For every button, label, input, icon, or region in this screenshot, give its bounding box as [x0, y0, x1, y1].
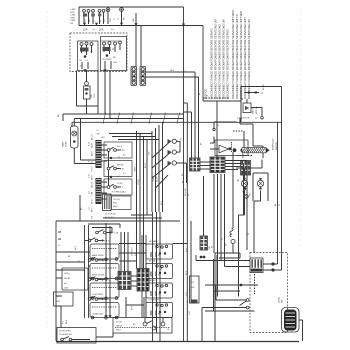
- svg-text:W-8: W-8: [148, 152, 150, 155]
- svg-text:W: W: [122, 169, 124, 171]
- surface switch SW2 terminals: [103, 41, 122, 54]
- clock/timer A1: [103, 194, 112, 211]
- svg-text:BK-12: BK-12: [145, 163, 147, 168]
- svg-text:5-18: 5-18: [88, 174, 90, 178]
- harness drop B: [157, 212, 161, 342]
- svg-text:L2BK: L2BK: [71, 15, 77, 17]
- svg-text:DOOR OPEN: DOOR OPEN: [59, 331, 71, 333]
- svg-text:DISCONNECT RANGE FROM POWER BE: DISCONNECT RANGE FROM POWER BEFORE SERVI…: [247, 19, 251, 99]
- relay coil K6: [62, 268, 88, 290]
- indicator light DS4: [168, 161, 177, 165]
- terminal TB1-5: [102, 9, 105, 24]
- svg-text:DISCONNECT RANGE FROM POWER BE: DISCONNECT RANGE FROM POWER BEFORE SERVI…: [222, 19, 226, 99]
- pin connector P10: [118, 272, 131, 290]
- svg-text:P4: P4: [183, 181, 185, 183]
- wire into latch y101: [203, 101, 241, 157]
- L1 label: [185, 70, 201, 95]
- main wire y114: [63, 114, 184, 121]
- X1 right leads: [263, 255, 282, 271]
- board connector P8: [210, 157, 225, 173]
- TB1 arrow A2: [95, 23, 98, 26]
- harness diagonal fan: [152, 141, 171, 188]
- ground lug G1: [106, 8, 110, 24]
- aux box: [54, 292, 74, 306]
- svg-text:L1RD: L1RD: [71, 9, 77, 11]
- svg-text:9-2: 9-2: [88, 159, 90, 162]
- latch switch box B: [253, 173, 268, 201]
- relay K2 contact: [88, 257, 110, 262]
- cam dashed lower: [237, 155, 253, 157]
- relay K12 inner: [149, 261, 168, 277]
- relay rails right: [142, 235, 146, 318]
- connector P3 strip B: [140, 67, 146, 86]
- svg-text:1250: 1250: [113, 62, 117, 64]
- wires into X1: [196, 255, 250, 267]
- relay K3 contact: [88, 277, 110, 282]
- terminal TB1-1: [83, 9, 86, 24]
- console left ticks: [58, 232, 71, 276]
- main wire y122: [72, 122, 237, 127]
- svg-text:INF SW: INF SW: [117, 165, 124, 167]
- cam step path: [240, 118, 263, 158]
- svg-text:CONV 580W: CONV 580W: [92, 294, 103, 296]
- chassis bus bottom: [56, 341, 299, 343]
- wire label BK: [58, 114, 60, 117]
- svg-text:8-18: 8-18: [88, 142, 90, 146]
- connector labels: [182, 174, 190, 196]
- svg-text:GND: GND: [110, 17, 112, 22]
- left wing labels: [75, 246, 81, 262]
- latch fuse F2: [244, 84, 265, 95]
- svg-text:18-4: 18-4: [170, 70, 174, 72]
- wire drop P2: [80, 195, 83, 221]
- svg-text:LATCH: LATCH: [252, 107, 255, 114]
- svg-text:P-1: P-1: [63, 321, 65, 324]
- surface switch SW2 contacts: [102, 47, 117, 69]
- svg-text:6-1: 6-1: [123, 173, 126, 175]
- svg-text:N5-07: N5-07: [113, 206, 118, 208]
- latch motor M4 drop: [239, 215, 245, 297]
- indicator light DS2: [168, 139, 177, 143]
- svg-text:OVEN: OVEN: [66, 141, 68, 147]
- gauge ticks: [103, 113, 180, 124]
- svg-text:OR-23: OR-23: [91, 181, 93, 188]
- TB1 arrow A3: [120, 23, 123, 26]
- svg-text:BAKE 2600W: BAKE 2600W: [92, 254, 104, 257]
- console inner lines: [103, 215, 162, 218]
- capacitor box X2: [190, 276, 200, 304]
- lamp wires right: [74, 119, 95, 164]
- lower latch contacts: [116, 318, 169, 332]
- sensor block: [200, 176, 211, 250]
- surface switch SW1 contacts: [80, 48, 94, 70]
- main wire y118: [74, 118, 183, 120]
- svg-text:DISCONNECT RANGE FROM POWER BE: DISCONNECT RANGE FROM POWER BEFORE SERVI…: [214, 19, 218, 99]
- terminal block TB1 outline: [79, 7, 203, 26]
- oven lamp DS1: [62, 119, 79, 164]
- latch motor M4 lead: [244, 168, 246, 178]
- interlock component X1: [250, 258, 263, 273]
- box link wires: [126, 297, 144, 318]
- svg-text:BK1: BK1: [89, 19, 91, 22]
- harness drop C: [184, 103, 192, 341]
- terminal TB1-4: [98, 9, 101, 24]
- interlock label: [273, 138, 278, 150]
- svg-text:P2: P2: [81, 208, 83, 210]
- svg-text:BK W RD: BK W RD: [185, 188, 187, 196]
- cam dashed link: [233, 131, 244, 148]
- right margin scan dots: [300, 9, 301, 245]
- harness bundle inner: [137, 131, 148, 269]
- svg-text:LOCK MTR: LOCK MTR: [149, 300, 159, 302]
- selector switch S1: [107, 147, 125, 152]
- relay K3 box: [90, 283, 119, 298]
- svg-text:CLOCK: CLOCK: [113, 199, 121, 201]
- svg-text:P6: P6: [217, 125, 219, 127]
- svg-text:TIMER: TIMER: [134, 166, 136, 172]
- latch motor M2: [241, 99, 258, 114]
- console outline top: [56, 220, 180, 222]
- wire corner x198.5: [198, 77, 200, 158]
- svg-text:DISCONNECT RANGE FROM POWER BE: DISCONNECT RANGE FROM POWER BEFORE SERVI…: [218, 24, 222, 99]
- svg-text:DISCONNECT RANGE FROM POWER BE: DISCONNECT RANGE FROM POWER BEFORE SERVI…: [239, 11, 243, 99]
- lower latch box: [113, 318, 172, 334]
- selector wiring: [109, 151, 121, 185]
- wire label column: [88, 134, 93, 219]
- connector P7: [241, 161, 251, 176]
- svg-text:P5: P5: [206, 96, 208, 98]
- harness labels: [134, 152, 163, 205]
- cam text row: [237, 118, 258, 120]
- svg-text:DISCONNECT RANGE FROM POWER BE: DISCONNECT RANGE FROM POWER BEFORE SERVI…: [231, 9, 235, 99]
- probe jack: [243, 187, 252, 198]
- sensor bottom wiring: [215, 253, 240, 341]
- latch box right edge: [281, 87, 283, 256]
- riser labels: [63, 320, 68, 324]
- clock display box: [112, 196, 132, 210]
- indicator light DS3: [168, 150, 177, 154]
- terminal TB1-2: [87, 9, 90, 24]
- svg-text:DISCONNECT RANGE FROM POWER BE: DISCONNECT RANGE FROM POWER BEFORE SERVI…: [235, 14, 239, 99]
- control wires into CN2: [102, 182, 108, 199]
- P10-P11 wires: [131, 276, 137, 286]
- margin scan dots: [46, 11, 47, 327]
- relay K4 box: [90, 303, 119, 318]
- svg-text:125V: 125V: [94, 93, 96, 98]
- wire L2 right vertical: [202, 26, 204, 102]
- selector switch S3: [107, 184, 124, 189]
- TB1 arrow A1: [83, 23, 86, 26]
- latch box top: [241, 87, 282, 123]
- lattice wires: [200, 255, 258, 311]
- svg-text:ALARM: ALARM: [242, 151, 245, 158]
- latch motor M4: [237, 178, 248, 215]
- svg-text:W: W: [94, 20, 96, 22]
- svg-text:BK-8: BK-8: [75, 246, 77, 250]
- relay K1 inner: [91, 249, 118, 261]
- svg-text:RD-2: RD-2: [161, 201, 163, 205]
- svg-text:P9: P9: [182, 174, 184, 176]
- relay K14 box: [146, 303, 173, 318]
- power plug J1 body: [284, 310, 297, 331]
- relay K2 inner: [91, 268, 118, 280]
- power plug wire: [299, 320, 303, 341]
- wire from plug y72: [146, 70, 196, 72]
- svg-text:2-6: 2-6: [255, 118, 258, 120]
- svg-text:LOCK MOTOR: LOCK MOTOR: [237, 118, 250, 120]
- TB1 internal marks: [83, 14, 126, 23]
- thermal fuse TCO: [230, 152, 235, 253]
- relay K1 contact: [88, 238, 110, 243]
- P8 down wires: [214, 174, 225, 297]
- relay K11 box: [146, 244, 173, 259]
- relay wiring left: [56, 241, 90, 297]
- terminal TB1-3: [92, 9, 95, 24]
- ground lug G2: [120, 8, 124, 24]
- svg-text:PLUNGER SW: PLUNGER SW: [59, 334, 72, 336]
- relay K3 inner: [91, 288, 118, 300]
- appliance dashed outline: [250, 253, 288, 333]
- bundle elbows: [109, 128, 159, 140]
- svg-text:BK-8: BK-8: [66, 320, 68, 324]
- harness drop A: [152, 212, 154, 341]
- ribbon connector CN2: [96, 178, 102, 204]
- selector box SB2 marks: [117, 165, 126, 176]
- cam long wire: [237, 121, 282, 123]
- svg-text:L1: L1: [185, 70, 187, 72]
- svg-text:DOOR: DOOR: [156, 176, 158, 182]
- cooktop drop wires: [105, 71, 110, 119]
- relay rails left: [85, 225, 89, 318]
- svg-text:SW: SW: [282, 300, 284, 303]
- board connector P9: [190, 158, 201, 171]
- svg-text:SW-2: SW-2: [116, 330, 121, 332]
- latch relay link: [236, 160, 263, 169]
- door switch S6: [202, 285, 249, 341]
- surface switch SW2 box: [101, 37, 127, 71]
- terminal block TB1 labels: [71, 9, 77, 25]
- P10 feed wires: [121, 232, 128, 272]
- relay K4 inner: [91, 307, 118, 319]
- cooktop tick T2: [104, 69, 107, 72]
- oven sensor wiring: [244, 161, 248, 251]
- wire L2b to plug: [141, 24, 185, 67]
- relay K13 box: [146, 283, 173, 298]
- svg-text:LATCH: LATCH: [116, 325, 123, 328]
- wire L1 vertical: [183, 7, 185, 341]
- svg-text:RELAY: RELAY: [64, 277, 71, 280]
- door switch box: [57, 328, 96, 344]
- svg-text:ERC: ERC: [113, 203, 118, 205]
- svg-text:1-8: 1-8: [167, 329, 170, 331]
- P9 feed wires: [184, 112, 192, 158]
- svg-text:8-34: 8-34: [189, 311, 191, 315]
- relay K11 inner: [149, 240, 168, 257]
- svg-text:20A: 20A: [99, 29, 104, 32]
- relay K2 box: [90, 264, 119, 279]
- svg-text:W: W: [68, 274, 70, 276]
- svg-text:W: W: [279, 204, 281, 206]
- selector box SB1: [104, 142, 132, 158]
- X1 dashed drop: [254, 274, 256, 294]
- svg-text:DISCONNECT RANGE FROM POWER BE: DISCONNECT RANGE FROM POWER BEFORE SERVI…: [226, 29, 230, 99]
- buzzer symbol: [210, 137, 245, 159]
- svg-text:LAMP: LAMP: [62, 141, 65, 147]
- wire from plug y77: [146, 76, 199, 78]
- surface switch SW1 box: [78, 41, 99, 71]
- svg-text:L1 N DF 208: L1 N DF 208: [105, 214, 116, 216]
- light switch label: [97, 130, 105, 139]
- P8 out wires: [225, 161, 247, 170]
- svg-text:PWR: PWR: [71, 20, 76, 22]
- indicator light wiring: [176, 141, 186, 183]
- svg-text:GRD: GRD: [56, 301, 61, 303]
- svg-text:15A: 15A: [83, 29, 88, 32]
- latch link wire: [96, 333, 113, 337]
- clock labels: [105, 192, 124, 220]
- svg-text:1-2: 1-2: [88, 207, 90, 210]
- pin connector P11: [137, 269, 149, 292]
- svg-text:DOOR: DOOR: [279, 296, 281, 303]
- svg-text:2-6: 2-6: [261, 93, 264, 95]
- svg-text:GY-13: GY-13: [91, 166, 93, 172]
- latch motor wiring: [251, 108, 263, 120]
- alarm box: [215, 140, 248, 156]
- svg-text:P5: P5: [181, 138, 183, 140]
- svg-text:N W: N W: [71, 12, 75, 14]
- cross wires: [89, 244, 188, 267]
- notice text block: [204, 9, 252, 99]
- relay K14 inner: [149, 300, 168, 316]
- monitor label: [279, 296, 284, 303]
- svg-text:BK-18: BK-18: [91, 134, 93, 140]
- relay K1 box: [90, 244, 119, 259]
- wire L2a to plug: [132, 13, 137, 67]
- svg-text:L2: L2: [118, 18, 120, 20]
- wire jog x76: [77, 71, 99, 115]
- selector box SB3: [104, 179, 132, 195]
- svg-text:HI-LO: HI-LO: [117, 146, 122, 148]
- relay K12 box: [146, 264, 173, 279]
- svg-text:DOOR: DOOR: [263, 84, 265, 90]
- control wires into CN1: [102, 145, 108, 161]
- box feed arrows: [105, 223, 112, 318]
- svg-text:8-2: 8-2: [123, 155, 126, 157]
- relay labels mid: [132, 246, 137, 310]
- svg-text:DISCONNECT RANGE FROM POWER BE: DISCONNECT RANGE FROM POWER BEFORE SERVI…: [210, 28, 214, 99]
- svg-text:LT SW: LT SW: [117, 183, 123, 185]
- door plunger switch S5: [59, 331, 90, 341]
- harness bundle left: [152, 122, 163, 212]
- svg-text:W: W: [118, 157, 120, 159]
- right wing labels: [186, 248, 188, 296]
- relay K4 contact: [88, 296, 110, 301]
- surface switch SW1 terminals: [80, 42, 93, 55]
- cam junction dot: [233, 149, 243, 152]
- latch switch drop: [254, 201, 261, 253]
- svg-text:CONVECT: CONVECT: [132, 246, 134, 256]
- cooktop dashed enclosure: [70, 33, 127, 72]
- svg-text:W: W: [222, 238, 224, 240]
- connector P3 strip A: [131, 67, 137, 86]
- bundle label P5: [181, 138, 203, 145]
- svg-text:DOOR: DOOR: [116, 322, 122, 324]
- oven fuse F1: [84, 71, 96, 115]
- svg-text:BROIL 3400W: BROIL 3400W: [92, 275, 104, 277]
- latch switch SW4: [257, 178, 263, 201]
- svg-text:GRN: GRN: [71, 17, 76, 19]
- right wire labels: [275, 203, 281, 206]
- relay row pre-a: [96, 230, 119, 235]
- svg-text:18-8: 18-8: [101, 137, 105, 139]
- svg-text:3-8: 3-8: [88, 191, 90, 194]
- mid wire labels: [156, 232, 250, 315]
- wire corner x195: [194, 72, 196, 158]
- fuse rating labels: [83, 29, 115, 32]
- latch left stub: [213, 122, 237, 131]
- svg-text:P-7 BRN 0-06: P-7 BRN 0-06: [112, 192, 124, 194]
- ribbon connector CN1: [96, 140, 102, 168]
- right wire pair: [277, 122, 279, 264]
- console top jogs: [88, 224, 120, 232]
- svg-text:INTERLOCK: INTERLOCK: [273, 138, 275, 150]
- relay K13 inner: [149, 279, 168, 296]
- selector box SB3 marks: [117, 183, 126, 194]
- svg-text:LR 2350W: LR 2350W: [102, 59, 112, 61]
- left riser wires: [56, 306, 61, 328]
- svg-text:P1: P1: [79, 260, 81, 262]
- svg-text:SW: SW: [97, 134, 100, 136]
- power plug J1 outline: [282, 308, 300, 333]
- latch cam bar: [242, 148, 270, 153]
- selector switch S2: [107, 166, 124, 171]
- selector box SB2: [104, 161, 132, 177]
- cooktop tick T1: [84, 69, 87, 72]
- svg-text:TOD: TOD: [209, 245, 211, 250]
- dashed stub y98: [203, 96, 229, 99]
- svg-text:CLEAN 120V: CLEAN 120V: [92, 313, 104, 316]
- console outline left: [55, 221, 57, 341]
- P9-P8 wires: [200, 162, 211, 169]
- svg-text:CNTRL: CNTRL: [138, 179, 140, 185]
